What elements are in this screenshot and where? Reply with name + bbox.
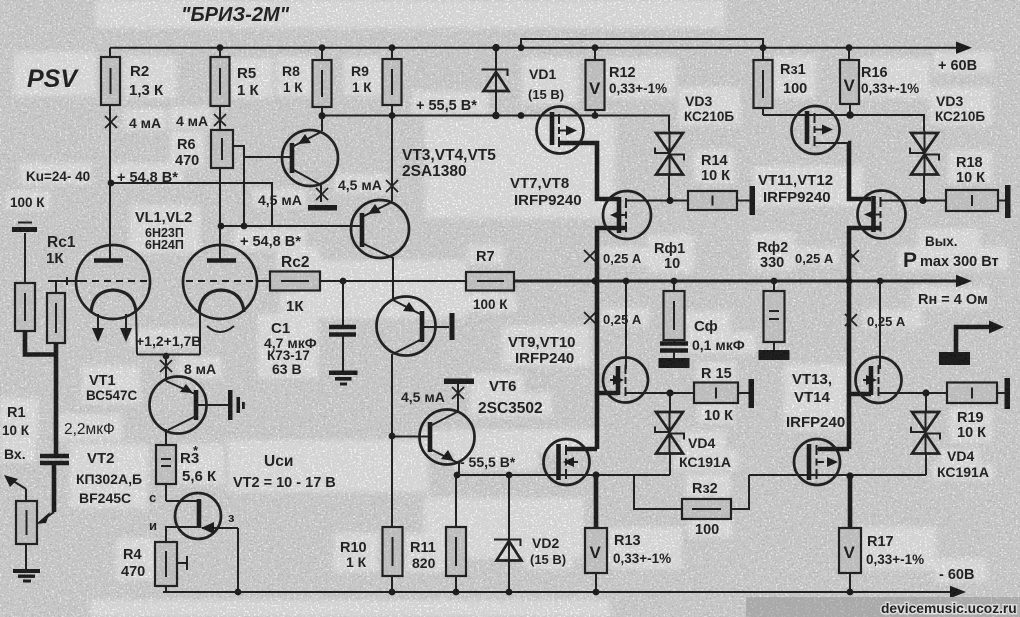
- wire R17 feed thick: [848, 476, 853, 528]
- wire VT11 source thick: [848, 143, 871, 199]
- label R5: [237, 65, 260, 99]
- transistor VT5: [377, 297, 450, 356]
- transistor VT6: [392, 384, 475, 475]
- label 0.25A x4: [603, 251, 906, 329]
- label R7: [473, 249, 508, 312]
- label R12: [609, 65, 667, 96]
- label Rph2: [757, 240, 788, 271]
- transistor VT3: [282, 116, 338, 202]
- wire R19 node: [884, 393, 1005, 475]
- tube VL2 anode: [207, 258, 236, 263]
- label VD3 right: [935, 93, 985, 124]
- MOSFET VT9: [603, 358, 648, 403]
- zener VD2: [494, 540, 522, 561]
- resistor R13: [585, 528, 607, 573]
- label Rc1: [46, 234, 76, 267]
- wire top jumper: [521, 39, 763, 48]
- wire -55.5V drive line: [459, 474, 926, 476]
- ground under C1: [329, 371, 358, 386]
- wire Rph2 top lead: [773, 281, 775, 291]
- resistor R15: [694, 383, 738, 404]
- label R14: [701, 153, 730, 184]
- wire R16 leads: [849, 48, 850, 115]
- label VD4 left: [679, 435, 731, 470]
- tube VL1 cathode arrows: [92, 314, 132, 342]
- resistor Rz2: [682, 499, 731, 519]
- capacitor C1: [329, 281, 356, 371]
- potentiometer 100K: [12, 223, 37, 332]
- tube VL1 left triode envelope: [76, 245, 150, 319]
- resistor R6: [211, 130, 233, 168]
- label R18: [956, 155, 985, 186]
- capacitor Cph: [659, 340, 690, 368]
- tube VL2 cathode: [199, 290, 244, 355]
- wire R2 branch: [109, 48, 111, 260]
- label R13: [613, 533, 671, 566]
- resistor R9: [383, 59, 402, 105]
- wire input thick L: [25, 331, 56, 455]
- tube VL2 grid: [186, 280, 270, 282]
- tube VL1 anode: [94, 258, 123, 263]
- label Usi: [233, 453, 336, 491]
- VT3 collector bar: [308, 205, 337, 211]
- wire +60V top bus: [110, 42, 972, 54]
- zener VD1: [482, 70, 509, 92]
- label JFET pins: [149, 490, 235, 533]
- wire +54.8V node A: [111, 183, 272, 226]
- MOSFET VT7: [537, 107, 584, 154]
- wire R11 leads: [455, 475, 457, 592]
- tube VL1 grid: [48, 277, 148, 285]
- resistor Rph1: [664, 291, 685, 340]
- label VT6: [478, 378, 543, 417]
- label VT7,VT8: [510, 175, 582, 209]
- MOSFET VT8: [603, 191, 651, 239]
- label R6: [175, 137, 199, 169]
- wire R13 bottom lead: [595, 573, 597, 592]
- resistor R8: [313, 60, 332, 107]
- label VT3 group: [402, 147, 496, 180]
- wire Rph1 top lead: [673, 281, 675, 291]
- wire VD3 right branch / R18 node: [881, 176, 1006, 201]
- R15 terminal bar: [749, 379, 755, 408]
- MOSFET VT10: [544, 439, 590, 485]
- resistor R2: [101, 57, 120, 105]
- wire grid output line: [320, 280, 466, 282]
- wire VD1 branch: [495, 48, 497, 116]
- wire VD2 branch: [508, 475, 510, 592]
- wire R12 top/bottom leads: [594, 48, 596, 116]
- label VD4 right: [937, 448, 989, 480]
- tube VL2 right triode envelope: [183, 245, 257, 319]
- R19 terminal bar: [1005, 378, 1011, 409]
- label R8: [282, 63, 303, 95]
- resistor R16: [840, 60, 859, 104]
- VT1 base bypass symbol: [228, 390, 245, 420]
- wire R9 branch: [391, 48, 393, 201]
- label R10: [340, 540, 367, 570]
- wire VT7 source thick: [559, 143, 619, 199]
- wire R8 branch: [321, 48, 323, 131]
- VT6 collector bar: [444, 379, 474, 385]
- resistor R5: [211, 57, 230, 106]
- zener VD4 right: [911, 412, 940, 454]
- label R4: [121, 547, 145, 580]
- MOSFET VT12: [858, 191, 906, 239]
- VT5 base bar: [450, 313, 455, 340]
- label R15: [701, 366, 733, 424]
- zener VD4 left: [655, 412, 684, 454]
- resistor R12: [586, 60, 605, 110]
- resistor R7: [466, 272, 514, 291]
- resistor R1: [16, 501, 37, 544]
- resistor R19: [947, 383, 997, 404]
- label R2: [129, 63, 164, 99]
- wire VT12 source thick: [818, 228, 881, 449]
- MOSFET VT11: [792, 106, 850, 154]
- label R3: [180, 443, 217, 485]
- MOSFET VT13: [856, 357, 902, 403]
- resistor Rc2: [270, 272, 320, 291]
- label VD3 left: [684, 93, 734, 124]
- label R9: [351, 63, 372, 95]
- watermark: [746, 597, 1020, 617]
- resistor Rph2: [759, 291, 790, 360]
- label R16: [861, 65, 919, 96]
- resistor R18: [946, 190, 998, 211]
- wire Rz2 gate loop: [634, 475, 749, 509]
- transistor VT4: [351, 200, 409, 258]
- wire VD3 left branch / R14 node: [626, 176, 750, 201]
- label VD2: [530, 535, 566, 567]
- wire cap to pot wiper arrow: [36, 463, 54, 524]
- label Rph1: [654, 241, 685, 272]
- label R17: [866, 534, 924, 567]
- label VT1: [86, 373, 138, 403]
- label Rz2: [692, 481, 719, 538]
- resistor R17: [839, 528, 861, 573]
- resistor R11: [446, 527, 466, 576]
- label Rc2: [281, 254, 309, 315]
- label VT11,VT12: [758, 172, 833, 206]
- tube VL1 cathode: [91, 290, 137, 355]
- wire output rail: [514, 275, 972, 287]
- wire VT4 interstage vertical: [392, 257, 393, 527]
- label VT13,VT14: [786, 371, 845, 431]
- wire -60V bottom rail: [163, 586, 966, 598]
- wire R17 bottom lead: [849, 573, 851, 592]
- label R19: [957, 410, 986, 441]
- resistor R14: [688, 191, 737, 210]
- resistor R3: [156, 445, 176, 484]
- resistor Rz1: [754, 60, 773, 108]
- R18 terminal bar: [1005, 185, 1011, 218]
- ground under R1: [13, 544, 40, 583]
- label C1: [264, 320, 317, 377]
- label Cph: [692, 318, 745, 353]
- wire VT13 drain: [879, 281, 881, 369]
- wire R1 top arrow: [4, 475, 26, 501]
- current cross marks: [105, 114, 859, 399]
- label VL1,VL2: [135, 210, 192, 252]
- resistor R10: [383, 527, 403, 576]
- label R1: [2, 405, 30, 462]
- label Rz1: [780, 62, 807, 97]
- label R11: [410, 540, 436, 571]
- capacitor 2.2uF: [40, 456, 69, 463]
- label VD1: [528, 66, 564, 102]
- wire +55.5V rail right: [763, 115, 924, 131]
- output arrow symbol: [939, 321, 1004, 366]
- wire VT9 drain: [625, 281, 627, 369]
- resistor Rc1: [47, 281, 65, 343]
- wire R13 feed thick: [594, 475, 599, 528]
- label output: [903, 234, 999, 272]
- MOSFET VT14: [794, 439, 840, 485]
- wire R6 side tap: [233, 146, 290, 226]
- zener VD3 right: [910, 131, 939, 176]
- wire R10 leads: [391, 576, 393, 592]
- transistor VT1: [150, 377, 229, 446]
- zener VD3 left: [655, 131, 684, 176]
- wire R15 node: [631, 393, 749, 475]
- JFET VT2: [166, 484, 238, 592]
- label VT9,VT10: [508, 334, 576, 367]
- wire cathode node: [137, 355, 200, 379]
- wire VT8 source thick: [567, 228, 626, 449]
- wire Rz1 leads: [762, 39, 764, 115]
- wire R5-R6 branch: [219, 48, 221, 260]
- resistor R4: [155, 542, 187, 592]
- R14 terminal bar: [750, 186, 756, 215]
- label VT2: [76, 450, 142, 506]
- wire +55.5V rail left: [322, 116, 669, 132]
- wire +54.8V node B: [221, 225, 362, 227]
